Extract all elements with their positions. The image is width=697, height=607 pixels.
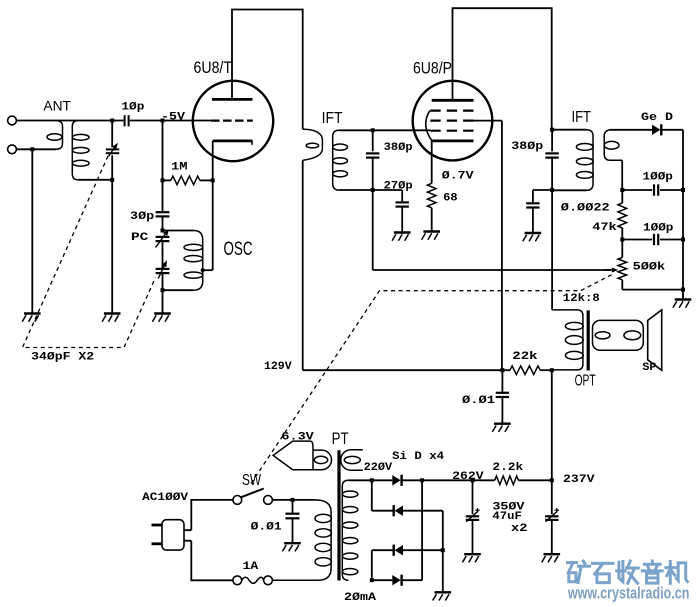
- resistor 2.2k: [473, 479, 495, 481]
- wire B+ to OPT: [551, 370, 553, 480]
- wire 129V rail: [303, 369, 503, 371]
- wire: [442, 550, 444, 592]
- capacitor 10p: [124, 115, 126, 126]
- wire: [431, 208, 433, 232]
- potentiometer 500k: [621, 240, 623, 258]
- svg-text:6U8/P: 6U8/P: [413, 60, 452, 78]
- svg-text:3Øp: 3Øp: [130, 211, 155, 223]
- capacitor 0.01 AC: [292, 500, 294, 513]
- svg-text:Ø.7V: Ø.7V: [442, 171, 474, 183]
- svg-text:1A: 1A: [243, 561, 259, 573]
- resistor 1M: [171, 176, 200, 185]
- 6U8/P g3 dashed: [430, 109, 473, 111]
- dashed switch link: [251, 275, 612, 484]
- inductor IFT2 primary: [552, 129, 586, 131]
- node 22k right: [550, 368, 554, 372]
- node 22k left: [500, 368, 504, 372]
- wire: [212, 180, 214, 270]
- wire: [682, 190, 684, 290]
- tube 6U8/P envelope: [413, 81, 493, 161]
- wire: [339, 129, 430, 131]
- ground: [104, 312, 121, 314]
- wire: [622, 289, 683, 291]
- node 262V: [471, 478, 475, 482]
- wire: [372, 479, 393, 481]
- PT 6.3V winding: [273, 441, 313, 470]
- wire B+ drop: [302, 160, 304, 370]
- node IFT2 top: [550, 128, 554, 132]
- inductor L2 tank coil: [72, 121, 78, 180]
- node det left: [620, 188, 624, 192]
- svg-text:SP: SP: [642, 362, 656, 374]
- ground: [525, 232, 542, 234]
- inductor IFT1 secondary: [333, 130, 339, 190]
- wire: [272, 499, 292, 501]
- node DC-: [441, 548, 445, 552]
- resistor 47k: [621, 190, 623, 203]
- wire: [371, 480, 373, 510]
- 6U8/P g2 dashed: [430, 119, 473, 121]
- svg-text:34ØpF X2: 34ØpF X2: [31, 352, 94, 364]
- diode D3: [393, 545, 395, 556]
- svg-text:Ø.ØØ22: Ø.ØØ22: [561, 202, 610, 214]
- PT primary: [293, 499, 316, 501]
- capacitor 100p 2: [622, 239, 652, 241]
- svg-text:IFT: IFT: [572, 109, 592, 126]
- svg-text:PT: PT: [332, 429, 349, 448]
- node grid-5V: [161, 119, 165, 123]
- svg-text:IFT: IFT: [322, 110, 343, 127]
- svg-text:PC: PC: [131, 232, 149, 244]
- wire: [403, 549, 443, 551]
- svg-text:5ØØk: 5ØØk: [633, 262, 666, 274]
- ground: [284, 542, 301, 544]
- svg-text:OPT: OPT: [575, 372, 596, 389]
- speaker SP: [648, 310, 662, 370]
- capacitor 30p: [156, 211, 170, 213]
- watermark CJK: [568, 561, 688, 583]
- wire: [403, 510, 443, 512]
- wire screen: [474, 120, 502, 122]
- ground: [394, 231, 411, 233]
- capacitor 47uF 2: [551, 480, 553, 514]
- node AC2: [370, 578, 374, 582]
- tube 6U8/T envelope: [193, 81, 273, 161]
- wire: [191, 500, 233, 530]
- antenna terminal J2: [8, 145, 17, 154]
- 6U8/P suppressor tie: [426, 111, 432, 141]
- svg-text:237V: 237V: [563, 474, 595, 486]
- ground: [435, 591, 452, 593]
- ground: [154, 312, 171, 314]
- node IFT1 bottom: [371, 188, 375, 192]
- variable capacitor OSC trimmer: [156, 268, 170, 270]
- capacitor 0.0022: [533, 189, 552, 191]
- 6U8/T cathode: [213, 139, 253, 142]
- switch SW: [233, 496, 242, 505]
- wire: [162, 216, 164, 229]
- svg-text:Ø.Ø1: Ø.Ø1: [251, 522, 282, 534]
- node IFT1 top: [371, 128, 375, 132]
- svg-text:Ge D: Ge D: [641, 112, 673, 124]
- svg-text:129V: 129V: [264, 361, 292, 373]
- ground: [675, 298, 692, 300]
- inductor IFT1 primary: [303, 129, 323, 160]
- svg-text:AC1ØØV: AC1ØØV: [142, 492, 188, 504]
- wire AGC line: [372, 190, 374, 270]
- node 1M right: [211, 178, 215, 182]
- wire: [371, 550, 373, 580]
- node tank top: [110, 119, 114, 123]
- wire: [111, 121, 113, 148]
- svg-text:68: 68: [443, 192, 458, 204]
- wire: [16, 148, 56, 150]
- svg-text:SW: SW: [242, 472, 262, 489]
- svg-text:x2: x2: [511, 523, 528, 535]
- 6U8/P g1 dashed: [430, 130, 473, 132]
- capacitor 380p 2: [551, 130, 553, 152]
- svg-text:www.crystalradio.cn: www.crystalradio.cn: [567, 585, 689, 603]
- svg-text:22ØV: 22ØV: [364, 462, 393, 474]
- node det right: [681, 188, 685, 192]
- svg-text:Ø.Ø1: Ø.Ø1: [462, 395, 495, 407]
- wire: [162, 241, 164, 268]
- wire: [372, 510, 393, 512]
- ground: [494, 423, 511, 425]
- inductor OSC coil: [163, 230, 194, 232]
- transformer PT core: [337, 450, 340, 580]
- node tank bottom: [110, 178, 114, 182]
- svg-text:47k: 47k: [592, 222, 617, 234]
- node ANT-gnd: [30, 147, 34, 151]
- ground: [544, 553, 561, 555]
- resistor 68: [427, 183, 436, 208]
- variable capacitor C1 tuning: [106, 148, 119, 150]
- wire IFT2 to OPT: [551, 190, 553, 310]
- ground: [423, 230, 440, 232]
- node IFT2 bottom: [550, 188, 554, 192]
- wire: [422, 479, 472, 481]
- svg-text:1ØØp: 1ØØp: [643, 172, 674, 184]
- inductor IFT2 secondary: [604, 130, 622, 161]
- node 1M left: [161, 178, 165, 182]
- dashed gang link: [23, 156, 156, 348]
- wire: [162, 290, 164, 313]
- capacitor 380p: [372, 130, 374, 151]
- diode D4: [392, 575, 400, 585]
- arrow to 500k wiper: [604, 269, 612, 271]
- junction OSC tap: [201, 268, 205, 272]
- wire: [403, 479, 423, 481]
- wire: [162, 180, 164, 211]
- wire cathode: [212, 141, 214, 181]
- wire: [162, 121, 164, 181]
- OPT core: [587, 310, 590, 370]
- 6U8/T plate: [212, 98, 253, 101]
- wire: [348, 479, 371, 481]
- antenna terminal J1: [8, 116, 17, 125]
- capacitor 100p 1: [622, 189, 652, 191]
- wire: [403, 579, 423, 581]
- node AC1: [370, 478, 374, 482]
- ground: [24, 312, 41, 314]
- svg-text:1ØØp: 1ØØp: [643, 223, 674, 235]
- svg-text:Si D x4: Si D x4: [392, 451, 444, 463]
- ground: [464, 553, 481, 555]
- inductor L1 antenna coil: [56, 121, 63, 150]
- capacitor 47uF 1: [472, 480, 474, 514]
- wire: [130, 120, 211, 122]
- svg-text:ANT: ANT: [43, 98, 71, 114]
- svg-text:47uF: 47uF: [492, 511, 521, 523]
- node OSC bottom: [161, 288, 165, 292]
- fuse 1A: [233, 576, 242, 585]
- svg-text:22k: 22k: [512, 351, 538, 363]
- wire: [339, 189, 402, 191]
- node OSC top: [161, 229, 165, 233]
- svg-text:6U8/T: 6U8/T: [194, 59, 233, 77]
- wire cathode: [431, 141, 433, 183]
- diode D2: [393, 505, 395, 516]
- svg-text:1M: 1M: [171, 161, 188, 173]
- wire: [16, 120, 123, 122]
- svg-text:OSC: OSC: [224, 239, 253, 260]
- wire: [111, 155, 113, 180]
- node DC+ top: [420, 478, 424, 482]
- inductor OPT primary: [552, 310, 583, 370]
- node 0.01 AC: [291, 498, 295, 502]
- svg-text:38Øp: 38Øp: [511, 141, 543, 153]
- svg-text:2.2k: 2.2k: [492, 462, 523, 474]
- resistor 22k: [502, 369, 510, 371]
- svg-text:6.3V: 6.3V: [281, 432, 314, 444]
- PT HV winding: [342, 480, 348, 580]
- svg-text:2ØmA: 2ØmA: [344, 592, 376, 604]
- wire: [662, 129, 683, 131]
- wire: [162, 273, 164, 290]
- svg-text:27Øp: 27Øp: [384, 181, 413, 193]
- capacitor 0.01 B+: [501, 370, 503, 392]
- node 100p2 right: [681, 238, 685, 242]
- wire: [191, 541, 233, 581]
- capacitor 270p: [401, 190, 403, 201]
- OPT secondary: [593, 320, 644, 350]
- capacitor PC padder: [156, 236, 170, 238]
- diode D1: [392, 475, 400, 485]
- node pot bottom: [681, 288, 685, 292]
- wire: [31, 149, 33, 313]
- 6U8/T grid dashed: [211, 119, 253, 121]
- svg-text:1Øp: 1Øp: [121, 101, 144, 113]
- wire: [610, 129, 653, 131]
- PT 220V winding: [341, 450, 363, 471]
- svg-text:-5V: -5V: [161, 111, 185, 123]
- wire: [78, 179, 112, 181]
- wire plate to IFT2: [453, 8, 552, 128]
- svg-text:38Øp: 38Øp: [384, 142, 413, 154]
- node 237V: [550, 478, 554, 482]
- plug: [162, 520, 184, 550]
- diode Ge D: [652, 125, 660, 135]
- svg-text:12k:8: 12k:8: [563, 293, 600, 305]
- wire: [111, 180, 113, 313]
- wire plate to IFT: [232, 10, 303, 130]
- wire: [372, 579, 393, 581]
- 6U8/P plate: [432, 99, 474, 102]
- wire: [682, 290, 684, 300]
- 6U8/P cathode: [432, 139, 474, 142]
- node 47k bottom: [620, 238, 624, 242]
